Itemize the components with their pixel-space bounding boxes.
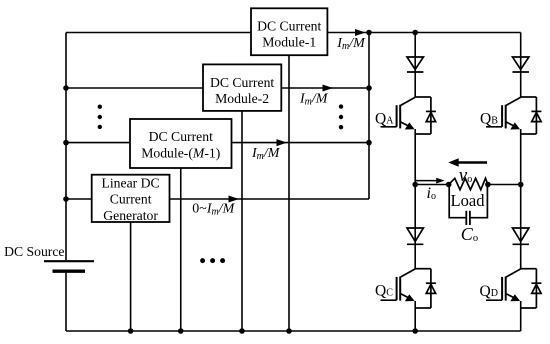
wire left leg upper (collector side of QA) [414,33,416,98]
svg-text:Im/M: Im/M [336,36,366,52]
wire left bus to Module-2 [66,87,203,89]
node output left [412,182,418,188]
arrow i_o output current [416,180,438,182]
wire left bus vertical [65,33,67,261]
svg-text:Module-2: Module-2 [215,91,269,106]
transistor Q_D IGBT [486,269,541,308]
wire load box left side [449,185,466,218]
wire collection bus vertical [368,33,370,200]
diode anti-parallel of Q_C [426,282,436,284]
wire Module-1 output to collection bus [327,32,369,34]
wire Module-2 return pin [241,111,243,331]
ellipsis vertical left [98,105,102,109]
capacitor C_o plates [465,211,467,225]
svg-text:Current: Current [110,192,152,207]
node junction left bus / Module-(M-1) [63,140,69,146]
diode anti-parallel of Q_D [531,282,541,284]
svg-text:Module-1: Module-1 [262,35,316,50]
battery DC Source negative plate [53,270,86,273]
wire Linear DC Current Generator return pin [130,222,132,331]
node junction bottom bus / Module-2 pin [239,328,245,334]
box Linear DC Current Generator [92,175,170,222]
svg-text:Load: Load [451,191,486,210]
wire load right to right leg [488,184,521,186]
transistor Q_B IGBT [486,97,541,134]
wire left bus to Linear DC Current Generator [66,198,92,200]
transistor Q_C IGBT [381,269,436,308]
svg-text:Generator: Generator [103,208,158,223]
arrow Linear DC generator output current [229,196,240,203]
node junction left bus / Linear generator [63,196,69,202]
svg-text:Linear DC: Linear DC [102,176,160,191]
arrow v_o polarity (pointing left) [458,161,488,164]
wire Module-1 return pin [288,55,290,331]
node junction collection bus / Module-(M-1) output [366,140,372,146]
wire battery negative lead [65,273,67,331]
svg-text:QB: QB [480,110,498,127]
wire right leg below QD [520,301,522,331]
node junction bottom bus / linear gen pin [128,328,134,334]
node junction bottom bus / Module-1 pin [286,328,292,334]
arrow Module-1 output current [355,29,366,36]
battery DC Source positive plate [44,260,94,262]
diode D1 series top-left [407,57,423,72]
diode anti-parallel of Q_B [531,110,541,112]
wire Module-(M-1) return pin [180,168,182,331]
wire Module-2 output to collection bus [281,87,369,89]
resistor Load [449,178,488,189]
wire left leg below QC [414,301,416,331]
wire top-left rail from left bus to Module-1 [66,32,251,34]
node junction collection bus / Module-2 output [366,85,372,91]
box DC Current Module-(M-1) [130,119,232,168]
diode anti-parallel of Q_A [426,110,436,112]
svg-text:DC Source: DC Source [4,244,64,259]
wire bottom bus [66,330,521,332]
box DC Current Module-2 [203,64,281,111]
wire right leg between QB emitter and output node [520,129,522,269]
svg-text:0~Im/M: 0~Im/M [192,201,235,217]
svg-text:QA: QA [375,110,394,127]
ellipsis horizontal bottom [200,258,205,263]
wire output node to load left [415,184,449,186]
diode D2 series top-right [513,57,529,72]
diode D3 series bottom-left [407,228,423,244]
node junction bottom bus / Module-(M-1) pin [178,328,184,334]
wire Module-(M-1) output to collection bus [232,142,370,144]
node output right [518,182,524,188]
ellipsis vertical right [339,104,343,108]
node load right [485,182,491,188]
box DC Current Module-1 [251,8,327,55]
wire left leg between QA emitter and output node [414,129,416,269]
node junction collection bus top [366,30,372,36]
diode D4 series bottom-right [513,228,529,244]
wire Linear DC Current Generator output to collection bus [170,198,370,200]
svg-text:io: io [427,185,436,202]
wire top rail of H-bridge [369,32,521,34]
node load left [446,182,452,188]
svg-text:Im/M: Im/M [251,146,281,162]
svg-text:DC Current: DC Current [210,75,274,90]
transistor Q_A IGBT [381,97,436,134]
wire right leg upper (collector side of QB) [520,33,522,98]
node junction left bus / Module-2 [63,85,69,91]
svg-text:DC Current: DC Current [257,19,321,34]
svg-text:DC Current: DC Current [149,129,213,144]
node junction top rail / left leg [412,30,418,36]
wire load box right side [470,185,488,218]
svg-text:vo: vo [459,165,472,186]
svg-text:Module-(M-1): Module-(M-1) [141,145,220,161]
svg-text:QC: QC [375,283,393,300]
arrow Module-2 output current [323,85,334,92]
arrow Module-(M-1) output current [277,139,288,146]
node junction bottom bus / left leg [412,328,418,334]
svg-text:QD: QD [480,283,498,300]
wire left bus to Module-(M-1) [66,142,130,144]
svg-text:Co: Co [461,224,478,244]
svg-text:Im/M: Im/M [299,91,329,107]
